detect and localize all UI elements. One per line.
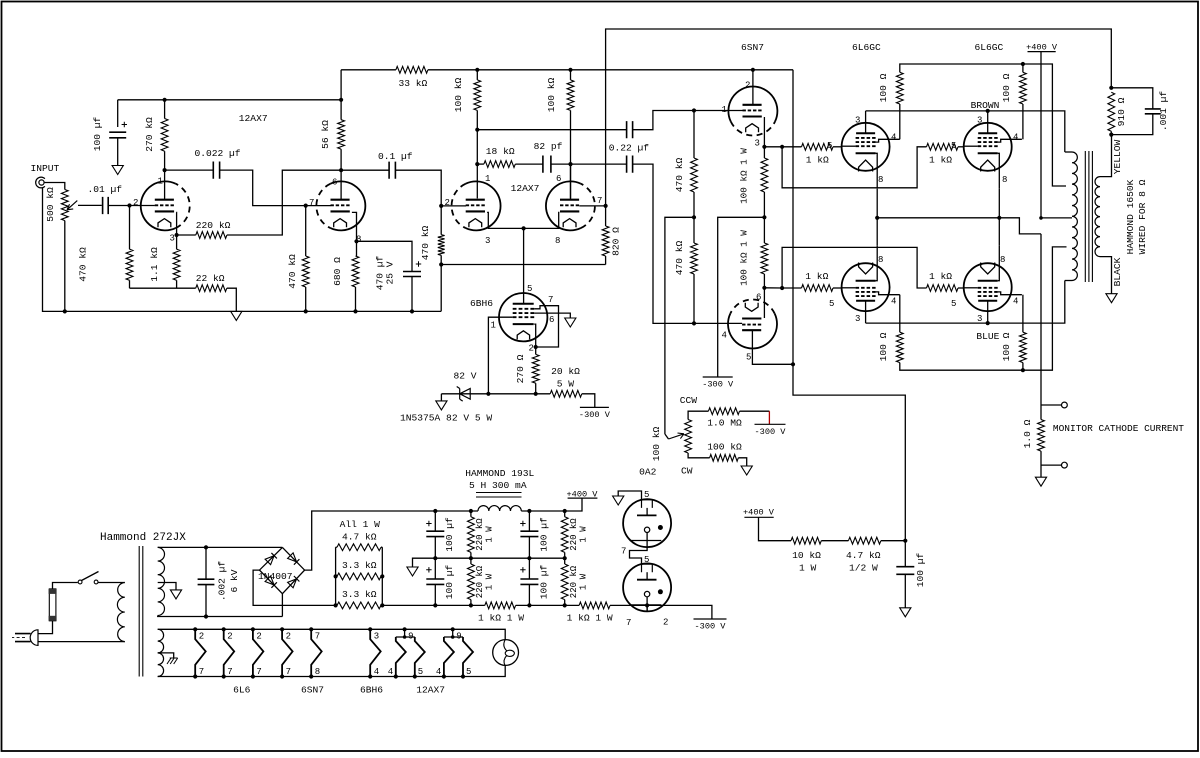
svg-text:1 W: 1 W	[579, 573, 589, 590]
svg-text:4: 4	[388, 667, 393, 677]
wire cathode to 6BH6 plate	[523, 228, 525, 303]
svg-text:0.1 µf: 0.1 µf	[378, 151, 413, 162]
svg-text:8: 8	[315, 667, 320, 677]
svg-text:2: 2	[133, 198, 138, 208]
resistor 100 kΩ to ground	[688, 453, 710, 458]
svg-text:100 Ω: 100 Ω	[1001, 332, 1012, 361]
svg-text:470 kΩ: 470 kΩ	[78, 247, 89, 282]
svg-text:270 Ω: 270 Ω	[515, 354, 526, 383]
heater 6L6 #3	[251, 627, 255, 631]
svg-text:6L6GC: 6L6GC	[852, 42, 881, 53]
node tube2 grid	[304, 204, 308, 208]
svg-text:25 V: 25 V	[385, 261, 396, 284]
svg-text:100 Ω: 100 Ω	[1001, 73, 1012, 102]
resistor 100 kΩ plate load left	[476, 70, 478, 80]
svg-text:7: 7	[199, 667, 204, 677]
0A2 regulator upper	[623, 499, 671, 547]
svg-text:100 Ω: 100 Ω	[878, 332, 889, 361]
monitor cathode current	[1040, 234, 1042, 420]
svg-text:3: 3	[374, 632, 379, 642]
svg-text:INPUT: INPUT	[31, 163, 60, 174]
svg-text:6: 6	[332, 178, 337, 188]
resistor 220 kΩ 1 W #3	[564, 511, 566, 517]
heater bus bottom rail	[158, 665, 506, 676]
HV center tap ground	[158, 583, 176, 590]
svg-text:100 µf: 100 µf	[444, 564, 455, 599]
svg-text:5: 5	[829, 299, 834, 309]
svg-text:470 kΩ: 470 kΩ	[674, 240, 685, 275]
6BH6 grid pin1	[488, 317, 512, 394]
svg-text:7: 7	[227, 667, 232, 677]
node feedback divider	[439, 262, 443, 266]
transformer core	[1085, 151, 1092, 282]
pilot lamp	[493, 640, 519, 666]
node V2a plate	[475, 128, 479, 132]
svg-text:22 kΩ: 22 kΩ	[196, 273, 225, 284]
resistor 33 kΩ	[341, 69, 396, 71]
svg-text:1 W: 1 W	[485, 573, 495, 590]
grid V2b wire	[579, 205, 605, 207]
-300V terminal PSU	[694, 618, 727, 620]
svg-text:1 W: 1 W	[485, 526, 495, 543]
resistor 270 Ω	[532, 354, 539, 383]
tube 6L6GC upper left	[842, 123, 890, 171]
svg-text:2: 2	[529, 344, 534, 354]
resistor 100 Ω screen UR	[1022, 104, 1024, 139]
svg-text:5 H 300 mA: 5 H 300 mA	[469, 480, 527, 491]
node lower plate to B+	[791, 362, 795, 366]
svg-text:1/2 W: 1/2 W	[849, 563, 878, 574]
svg-text:WIRED FOR 8 Ω: WIRED FOR 8 Ω	[1137, 179, 1148, 254]
svg-text:6 kV: 6 kV	[229, 569, 240, 592]
output transformer secondary	[1095, 177, 1100, 257]
bridge negative out	[253, 570, 336, 605]
wire jack to pot	[45, 183, 65, 190]
resistor 100 Ω screen LR	[1022, 295, 1024, 333]
svg-text:4: 4	[722, 331, 727, 341]
svg-text:220 kΩ: 220 kΩ	[569, 565, 579, 598]
svg-text:HAMMOND 193L: HAMMOND 193L	[465, 468, 534, 479]
272JX primary coil	[117, 583, 124, 642]
node tube1 plate	[163, 168, 167, 172]
input jack J1	[39, 180, 44, 185]
svg-text:18 kΩ: 18 kΩ	[486, 146, 515, 157]
node tube2 plate	[339, 168, 343, 172]
272JX HV secondary	[158, 547, 165, 615]
resistor 470 kΩ tube2 grid	[305, 206, 307, 256]
ground zener	[440, 394, 442, 401]
capacitor 100 µf PSU 4	[528, 558, 530, 579]
svg-text:100 Ω: 100 Ω	[878, 73, 889, 102]
svg-text:7: 7	[626, 618, 631, 628]
heater CT chassis ground	[158, 653, 174, 658]
svg-text:BLUE: BLUE	[976, 331, 999, 342]
B+ rail first stage	[118, 99, 341, 101]
svg-text:1: 1	[722, 105, 727, 115]
resistor 1 kΩ LL grid	[802, 285, 834, 292]
272JX heater secondary	[158, 629, 164, 676]
svg-text:4: 4	[891, 133, 896, 143]
svg-text:All 1 W: All 1 W	[340, 519, 381, 530]
node upper cathode	[762, 145, 766, 149]
svg-text:5: 5	[951, 141, 956, 151]
AC plug	[30, 630, 38, 646]
heater 6SN7	[309, 627, 313, 631]
resistor 470 kΩ upper	[693, 111, 695, 159]
resistor 220 kΩ 1 W #4	[564, 558, 566, 564]
bridge AC bottom	[281, 594, 283, 617]
svg-text:100 kΩ: 100 kΩ	[707, 441, 742, 452]
svg-text:8: 8	[1002, 175, 1007, 185]
resistor 1 kΩ UL grid	[802, 143, 834, 150]
wire plug bottom to primary	[38, 641, 125, 643]
svg-text:6SN7: 6SN7	[301, 685, 324, 696]
svg-text:6L6: 6L6	[233, 685, 251, 696]
svg-text:680 Ω: 680 Ω	[332, 257, 343, 286]
capacitor 0.22 µf lower	[571, 163, 627, 165]
svg-text:270 kΩ: 270 kΩ	[144, 117, 155, 152]
resistor 1 kΩ UR grid	[927, 143, 959, 150]
wire 470k junction to balance pot	[665, 217, 694, 434]
-300V terminal see-saw	[703, 376, 733, 378]
ground rail PSU	[407, 567, 418, 576]
svg-text:5: 5	[644, 490, 649, 500]
HV bottom wire	[158, 616, 283, 617]
heater 6L6 #2	[222, 627, 226, 631]
output transformer primary	[1072, 152, 1077, 281]
svg-text:1 kΩ 1 W: 1 kΩ 1 W	[478, 613, 524, 624]
resistor 100 kΩ 1 W upper	[763, 147, 765, 158]
svg-text:8: 8	[878, 175, 883, 185]
resistor 820 Ω	[605, 206, 607, 226]
svg-text:7: 7	[256, 667, 261, 677]
capacitor 100 µf bias	[904, 541, 906, 567]
node 910 top	[1109, 86, 1113, 90]
resistor 1 kΩ 1 W left	[485, 602, 516, 609]
ground CW	[741, 466, 752, 475]
node grid feed lower	[780, 286, 784, 290]
svg-text:100 kΩ 1 W: 100 kΩ 1 W	[738, 230, 749, 286]
svg-text:5: 5	[951, 299, 956, 309]
svg-text:5: 5	[746, 353, 751, 363]
capacitor .001 µf	[1111, 88, 1153, 109]
heater 12AX7 #2	[451, 627, 455, 631]
svg-text:.001 µf: .001 µf	[1158, 91, 1169, 132]
red segment	[768, 411, 770, 424]
svg-text:470 kΩ: 470 kΩ	[674, 157, 685, 192]
svg-text:100 kΩ: 100 kΩ	[651, 426, 662, 461]
capacitor .002 µf 6 kV	[204, 545, 208, 549]
svg-text:10 kΩ: 10 kΩ	[792, 550, 821, 561]
triode V1a 12AX7	[176, 184, 190, 228]
svg-text:2: 2	[256, 632, 261, 642]
triode 6SN7 lower inverted	[730, 299, 774, 313]
svg-text:2: 2	[199, 632, 204, 642]
cathode lead tube2	[352, 212, 357, 241]
svg-text:7: 7	[548, 295, 553, 305]
resistor 910 Ω	[1108, 92, 1115, 131]
resistor 100 Ω screen UL	[899, 104, 901, 139]
6BH6 pin6 screen to ground	[534, 313, 570, 318]
svg-text:+400 V: +400 V	[743, 508, 775, 518]
ground rail bottom left	[65, 310, 441, 312]
svg-text:7: 7	[286, 667, 291, 677]
svg-text:3: 3	[855, 116, 860, 126]
svg-text:3.3 kΩ: 3.3 kΩ	[342, 589, 377, 600]
svg-text:3: 3	[485, 236, 490, 246]
node grid feed upper	[780, 145, 784, 149]
svg-text:2: 2	[663, 618, 668, 628]
resistor 56 kΩ	[340, 100, 342, 120]
power switch	[78, 580, 82, 584]
svg-text:4: 4	[436, 667, 441, 677]
tube 6L6GC upper right	[964, 123, 1012, 171]
bias rail -300V	[441, 393, 550, 395]
svg-text:6BH6: 6BH6	[470, 298, 493, 309]
fuse	[49, 589, 56, 621]
svg-text:0A2: 0A2	[639, 467, 657, 478]
svg-text:1 kΩ: 1 kΩ	[929, 155, 952, 166]
svg-text:100 kΩ: 100 kΩ	[453, 77, 464, 112]
svg-text:220 kΩ: 220 kΩ	[196, 220, 231, 231]
bridge diode bottom-left	[265, 576, 274, 585]
svg-text:100 µf: 100 µf	[915, 552, 926, 587]
B+ rail PSU	[435, 510, 478, 512]
triode 6SN7 upper	[731, 121, 775, 135]
node 100k center	[762, 215, 766, 219]
svg-text:2: 2	[286, 632, 291, 642]
resistor 10 kΩ 1 W	[791, 537, 821, 544]
node V2a grid	[439, 204, 443, 208]
svg-text:82 V: 82 V	[454, 371, 477, 382]
svg-text:500 kΩ: 500 kΩ	[45, 187, 56, 222]
crossover to LR grid	[782, 247, 926, 288]
resistor 470 kΩ lower	[693, 217, 695, 243]
svg-text:1 kΩ: 1 kΩ	[805, 271, 828, 282]
svg-text:.002 µf: .002 µf	[217, 561, 228, 602]
svg-text:Hammond 272JX: Hammond 272JX	[100, 532, 186, 544]
svg-text:4: 4	[1013, 297, 1018, 307]
resistor 1 kΩ 1 W right	[579, 602, 610, 609]
B+ rail second stage	[477, 69, 793, 71]
node V2b plate	[568, 162, 572, 166]
wire plug to fuse	[38, 621, 53, 634]
svg-text:910 Ω: 910 Ω	[1116, 97, 1127, 126]
svg-text:100 µf: 100 µf	[539, 564, 550, 599]
6BH6 pin7 tie	[534, 306, 558, 347]
node lower cathode	[762, 286, 766, 290]
resistor 22 kΩ	[130, 287, 196, 289]
svg-text:5 W: 5 W	[557, 379, 575, 390]
svg-text:3: 3	[855, 314, 860, 324]
-300V terminal pot	[755, 423, 786, 425]
svg-text:4.7 kΩ: 4.7 kΩ	[846, 550, 881, 561]
svg-text:5: 5	[827, 141, 832, 151]
svg-text:9: 9	[456, 632, 461, 642]
svg-text:820 Ω: 820 Ω	[610, 227, 621, 256]
resistor 18 kΩ	[477, 163, 484, 165]
svg-text:HAMMOND 1650K: HAMMOND 1650K	[1125, 179, 1136, 254]
svg-text:220 kΩ: 220 kΩ	[569, 518, 579, 551]
pot 100 kΩ bias	[685, 420, 692, 454]
svg-text:3: 3	[755, 139, 760, 149]
heater 6BH6	[368, 627, 372, 631]
svg-text:1: 1	[491, 321, 496, 331]
ground bias cap	[900, 608, 911, 617]
wire pot bottom to rail	[64, 221, 66, 312]
ground secondary black	[1106, 294, 1117, 303]
resistor 1.1 kΩ	[176, 235, 178, 249]
0A2 series jog	[630, 547, 648, 565]
wire fuse to switch	[53, 583, 78, 589]
svg-text:4: 4	[374, 667, 379, 677]
svg-text:100 µf: 100 µf	[539, 517, 550, 552]
svg-text:4.7 kΩ: 4.7 kΩ	[342, 532, 377, 543]
resistor 1.0 MΩ	[688, 411, 708, 419]
svg-text:2: 2	[227, 632, 232, 642]
resistor 220 kΩ 1 W #2	[470, 558, 472, 564]
svg-text:YELLOW: YELLOW	[1112, 139, 1123, 174]
capacitor 100 µf	[117, 100, 119, 127]
heater bus top rail	[158, 629, 506, 639]
svg-text:220 kΩ: 220 kΩ	[475, 518, 485, 551]
svg-text:100 µf: 100 µf	[444, 517, 455, 552]
heater 6L6 #1	[193, 627, 197, 631]
svg-text:12AX7: 12AX7	[511, 183, 540, 194]
svg-text:3: 3	[170, 234, 175, 244]
tube 6L6GC lower right	[964, 263, 1012, 311]
primary center tap	[1041, 217, 1072, 219]
svg-text:20 kΩ: 20 kΩ	[551, 366, 580, 377]
HV top wire	[158, 546, 283, 548]
bridge diode bottom-right	[288, 579, 297, 588]
svg-text:3.3 kΩ: 3.3 kΩ	[342, 560, 377, 571]
resistor 4.7 kΩ block	[336, 546, 337, 548]
svg-text:BLACK: BLACK	[1112, 257, 1123, 286]
svg-text:5: 5	[527, 284, 532, 294]
capacitor 470 µf 25 V	[357, 241, 413, 271]
resistor 1 kΩ LR grid	[927, 285, 959, 292]
resistor 3.3 kΩ lower	[337, 602, 381, 609]
svg-text:3: 3	[977, 116, 982, 126]
node bias divider	[903, 539, 907, 543]
node 910 bottom	[1109, 133, 1113, 137]
svg-text:1 W: 1 W	[579, 526, 589, 543]
resistor 100 Ω screen LL	[899, 295, 901, 333]
svg-text:1N5375A 82 V 5 W: 1N5375A 82 V 5 W	[400, 413, 492, 424]
triode V2a 12AX7	[452, 184, 466, 228]
ground symbol on rail	[231, 311, 242, 320]
svg-text:7: 7	[315, 632, 320, 642]
svg-text:12AX7: 12AX7	[239, 113, 268, 124]
resistor 270 kΩ	[164, 100, 166, 119]
potentiometer 500 kΩ	[61, 190, 68, 221]
svg-text:33 kΩ: 33 kΩ	[399, 78, 428, 89]
svg-text:CCW: CCW	[680, 395, 698, 406]
svg-text:-300 V: -300 V	[755, 427, 787, 437]
svg-text:4: 4	[1013, 133, 1018, 143]
node 6SN7 lower grid	[692, 321, 696, 325]
cathode rail V2	[487, 212, 559, 228]
svg-text:1.1 kΩ: 1.1 kΩ	[149, 247, 160, 282]
heater 6L6 #4	[280, 627, 284, 631]
resistor 4.7 kΩ 1/2 W	[848, 537, 881, 544]
node 6SN7 upper grid	[692, 108, 696, 112]
node tube1 grid	[127, 203, 131, 207]
crossover to UR grid	[782, 147, 926, 188]
svg-text:9: 9	[408, 632, 413, 642]
svg-text:4: 4	[891, 297, 896, 307]
wire 56k top to 33k rail	[340, 70, 342, 100]
svg-text:5: 5	[466, 667, 471, 677]
svg-text:2: 2	[745, 81, 750, 91]
heater 12AX7 #1	[403, 627, 407, 631]
resistor 100 kΩ plate load right	[570, 70, 572, 80]
svg-text:5: 5	[418, 667, 423, 677]
svg-text:220 kΩ: 220 kΩ	[475, 565, 485, 598]
svg-text:6SN7: 6SN7	[741, 42, 764, 53]
capacitor 100 µf PSU 1	[434, 511, 436, 531]
capacitor 100 µf PSU 2	[434, 558, 436, 579]
svg-text:1 kΩ 1 W: 1 kΩ 1 W	[567, 613, 613, 624]
bias rail PSU	[382, 604, 485, 606]
svg-text:CW: CW	[681, 465, 693, 476]
svg-text:12AX7: 12AX7	[416, 685, 445, 696]
svg-text:2: 2	[445, 198, 450, 208]
svg-text:100 kΩ 1 W: 100 kΩ 1 W	[738, 148, 749, 204]
bridge diode top-left	[265, 556, 274, 565]
svg-text:56 kΩ: 56 kΩ	[320, 120, 331, 149]
272JX core	[139, 546, 143, 677]
triode V1b 12AX7	[316, 184, 330, 228]
wire switch to primary	[98, 582, 125, 584]
cathode tie line	[876, 189, 878, 245]
resistor 100 kΩ 1 W lower	[763, 217, 765, 243]
triode V2b 12AX7	[581, 184, 595, 228]
svg-text:-300 V: -300 V	[695, 622, 727, 632]
resistor 470 kΩ input grid leak	[129, 206, 131, 250]
svg-text:8: 8	[555, 236, 560, 246]
svg-text:1N4007: 1N4007	[258, 571, 293, 582]
svg-text:470 kΩ: 470 kΩ	[420, 225, 431, 260]
svg-text:1 kΩ: 1 kΩ	[929, 271, 952, 282]
svg-text:0.022 µf: 0.022 µf	[195, 148, 241, 159]
resistor 3.3 kΩ upper	[337, 573, 381, 580]
svg-text:6: 6	[756, 293, 761, 303]
bridge diode top-right	[288, 553, 297, 562]
svg-text:470 kΩ: 470 kΩ	[287, 254, 298, 289]
svg-text:82 pf: 82 pf	[534, 141, 563, 152]
capacitor 100 µf PSU 3	[528, 511, 530, 531]
svg-text:.01 µf: .01 µf	[88, 184, 123, 195]
pot wiper arrow mid	[665, 434, 669, 439]
svg-text:1.0 MΩ: 1.0 MΩ	[707, 418, 742, 429]
svg-text:0.22 µf: 0.22 µf	[609, 143, 650, 154]
feedback wire from output	[606, 29, 1112, 206]
resistor 680 Ω	[356, 241, 358, 256]
svg-text:6BH6: 6BH6	[360, 685, 383, 696]
bridge positive out	[305, 511, 436, 570]
svg-text:100 kΩ: 100 kΩ	[546, 77, 557, 112]
cathode lead tube1	[175, 212, 177, 235]
tube 6L6GC lower left	[842, 263, 890, 311]
svg-text:8: 8	[878, 255, 883, 265]
ground below 100 µf	[112, 166, 123, 175]
6BH6 cathode pin2	[534, 324, 536, 354]
0A2 regulator lower	[623, 563, 671, 611]
svg-text:100 µf: 100 µf	[92, 116, 103, 151]
resistor 220 kΩ 1 W #1	[470, 511, 472, 517]
